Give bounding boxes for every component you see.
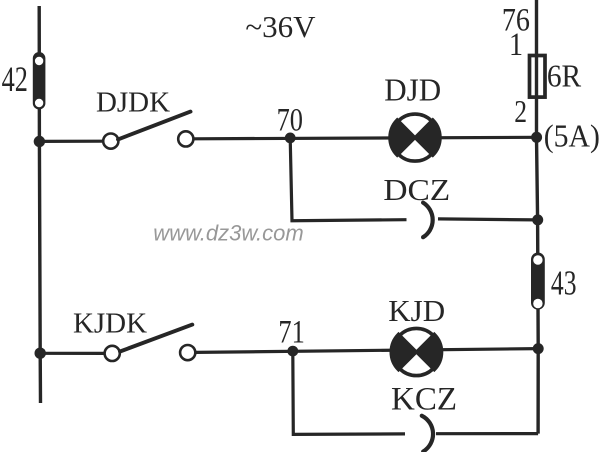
svg-text:KJDK: KJDK [73,308,147,340]
svg-text:~36V: ~36V [245,9,316,44]
svg-text:KJD: KJD [388,293,445,328]
svg-text:KCZ: KCZ [391,382,457,418]
svg-text:DCZ: DCZ [383,172,450,207]
svg-text:43: 43 [551,264,577,303]
svg-text:42: 42 [2,59,28,99]
svg-text:(5A): (5A) [544,118,600,154]
svg-text:71: 71 [278,314,304,350]
svg-text:6R: 6R [547,59,582,94]
svg-text:1: 1 [509,26,523,63]
svg-text:www.dz3w.com: www.dz3w.com [153,221,303,246]
svg-text:DJD: DJD [384,72,441,108]
svg-text:2: 2 [514,94,527,129]
svg-text:70: 70 [277,102,303,138]
svg-text:DJDK: DJDK [96,87,170,119]
